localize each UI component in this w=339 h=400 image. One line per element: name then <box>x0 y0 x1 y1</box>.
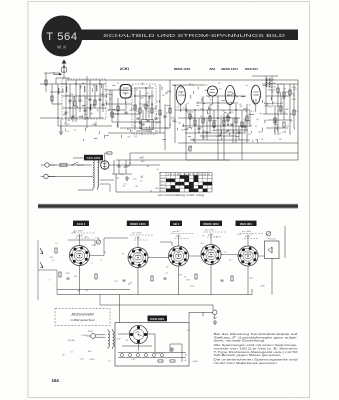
svg-text:1,9: 1,9 <box>240 249 243 251</box>
scan speckle <box>32 7 306 395</box>
svg-text:5000: 5000 <box>258 131 262 133</box>
power ground <box>125 176 129 180</box>
wire output section <box>252 76 298 135</box>
svg-text:5000: 5000 <box>178 105 182 107</box>
mains plug upper <box>41 163 55 167</box>
smoothing capacitors <box>112 160 132 174</box>
svg-text:0,5: 0,5 <box>123 185 125 187</box>
svg-text:25: 25 <box>160 113 162 115</box>
svg-text:50: 50 <box>191 111 193 113</box>
svg-text:25: 25 <box>255 126 257 128</box>
svg-text:0,1: 0,1 <box>81 335 84 337</box>
mains transformer (bottom) <box>108 329 114 349</box>
svg-text:RENS 1264: RENS 1264 <box>221 67 238 71</box>
socket AB1 <box>169 246 189 266</box>
wire right edge drop <box>297 80 299 160</box>
svg-text:300: 300 <box>141 97 144 99</box>
heater wires <box>100 180 114 192</box>
svg-text:0,5: 0,5 <box>146 111 148 113</box>
svg-text:2x350: 2x350 <box>154 353 160 355</box>
detector resistors <box>189 114 248 127</box>
detector caps <box>198 124 247 136</box>
svg-text:25: 25 <box>278 111 280 113</box>
svg-text:10: 10 <box>166 113 168 115</box>
svg-text:0,2: 0,2 <box>259 96 261 98</box>
component value specks <box>60 83 298 193</box>
svg-text:dreht, neutrale Einstellung).: dreht, neutrale Einstellung). <box>214 339 266 343</box>
svg-text:0,1: 0,1 <box>108 361 111 363</box>
svg-text:0,5: 0,5 <box>67 124 69 126</box>
svg-text:100: 100 <box>279 139 282 141</box>
svg-text:Lw 1: Lw 1 <box>161 177 165 179</box>
svg-text:100: 100 <box>113 114 116 116</box>
svg-text:10: 10 <box>142 158 144 160</box>
chassis outline <box>115 323 189 367</box>
socket top stubs <box>80 233 249 248</box>
socket RENS1264 a <box>128 248 148 268</box>
svg-text:2x350: 2x350 <box>192 361 198 363</box>
svg-text:25: 25 <box>200 109 202 111</box>
svg-text:Volt-Bereich gegen Masse gemes: Volt-Bereich gegen Masse gemessen. <box>214 353 282 357</box>
lamp between sockets <box>95 237 101 245</box>
svg-text:10: 10 <box>249 105 251 107</box>
mixer junction dots <box>117 87 160 122</box>
svg-text:300: 300 <box>139 104 142 106</box>
bottom voltage specks <box>63 330 198 363</box>
svg-text:0,2: 0,2 <box>90 113 92 115</box>
svg-text:0,1: 0,1 <box>67 131 69 133</box>
label socket RENS1264 a <box>127 221 149 226</box>
svg-text:25: 25 <box>216 136 218 138</box>
svg-text:RENS 1264: RENS 1264 <box>174 67 191 71</box>
svg-text:25: 25 <box>208 109 210 111</box>
svg-text:5000: 5000 <box>171 117 175 119</box>
rgn1064 label box (schematic) <box>84 155 103 161</box>
svg-text:10: 10 <box>150 191 152 193</box>
speaker box <box>265 239 280 259</box>
wire socket bus <box>57 226 285 323</box>
title banner SCHALTBILD UND STROM-SPANNUNGS BILD <box>79 30 298 41</box>
svg-text:Lw 4: Lw 4 <box>161 187 165 189</box>
tube RENS1264 second envelope <box>225 85 235 112</box>
svg-text:25: 25 <box>231 112 233 114</box>
label socket RES964 <box>236 221 257 226</box>
wire left vertical feeds <box>66 76 87 128</box>
svg-text:0,2: 0,2 <box>60 118 62 120</box>
svg-text:RENS 1264: RENS 1264 <box>203 222 219 226</box>
svg-text:Allstrommodell: Allstrommodell <box>70 313 93 317</box>
svg-text:0,1: 0,1 <box>86 98 88 100</box>
svg-text:5000: 5000 <box>286 92 290 94</box>
svg-text:0,2: 0,2 <box>245 111 247 113</box>
svg-text:0,1: 0,1 <box>134 126 136 128</box>
svg-text:0,1: 0,1 <box>183 108 185 110</box>
svg-text:0: 0 <box>49 279 50 281</box>
svg-text:0,5: 0,5 <box>219 89 221 91</box>
svg-text:0,1: 0,1 <box>150 132 152 134</box>
label tube AB1 (schematic) <box>209 67 215 71</box>
svg-text:100: 100 <box>116 177 119 179</box>
mains plug (bottom) <box>87 331 106 338</box>
svg-text:10: 10 <box>123 167 125 169</box>
svg-text:0,5: 0,5 <box>224 132 226 134</box>
switch F+1 top left <box>53 73 61 76</box>
svg-text:25: 25 <box>206 85 208 87</box>
svg-text:100: 100 <box>271 91 274 93</box>
tuner capacitors <box>45 80 105 117</box>
svg-text:10: 10 <box>203 137 205 139</box>
svg-text:164: 164 <box>52 378 60 383</box>
svg-text:4,15V: 4,15V <box>245 235 251 238</box>
volume control <box>188 146 192 151</box>
section divider rule <box>38 204 298 209</box>
svg-text:10: 10 <box>280 84 282 86</box>
tube ACH1 envelope <box>120 85 131 105</box>
svg-text:per Umschaltung möbl. nötig: per Umschaltung möbl. nötig <box>157 194 205 197</box>
svg-text:0,5: 0,5 <box>256 119 258 121</box>
svg-text:0,25: 0,25 <box>222 118 225 120</box>
wire power to bus <box>48 126 160 192</box>
svg-text:1,9: 1,9 <box>165 273 168 275</box>
if filter box <box>142 120 154 130</box>
table caption <box>157 194 205 197</box>
svg-text:0,5: 0,5 <box>245 85 247 87</box>
svg-text:10: 10 <box>279 133 281 135</box>
svg-text:Lw 2: Lw 2 <box>161 181 165 183</box>
svg-text:10: 10 <box>125 102 127 104</box>
svg-text:AB 1: AB 1 <box>173 222 180 226</box>
svg-text:25: 25 <box>197 102 199 104</box>
svg-text:Wdg 100: Wdg 100 <box>268 83 276 85</box>
label tube RENS1264 second (schematic) <box>221 67 238 71</box>
svg-text:1,9: 1,9 <box>51 260 54 262</box>
socket RES964 <box>238 246 258 266</box>
label socket ACH1 <box>73 221 89 226</box>
svg-text:10: 10 <box>127 97 129 99</box>
svg-text:0,1: 0,1 <box>107 109 109 111</box>
svg-text:0,25: 0,25 <box>283 112 286 114</box>
svg-text:4000: 4000 <box>292 99 296 101</box>
svg-text:4,15V: 4,15V <box>135 237 141 240</box>
svg-text:100: 100 <box>276 127 279 129</box>
svg-text:im Bild gezeichnet: im Bild gezeichnet <box>70 318 95 322</box>
output transformer <box>266 78 270 87</box>
svg-text:Lw 5: Lw 5 <box>161 191 165 193</box>
svg-text:0,2: 0,2 <box>200 126 202 128</box>
svg-text:zusätzl. ausgeführt: zusätzl. ausgeführt <box>264 105 281 108</box>
svg-text:5000: 5000 <box>155 188 159 190</box>
svg-text:4,15V: 4,15V <box>176 235 182 238</box>
svg-text:1,9: 1,9 <box>224 252 227 254</box>
svg-text:0,1: 0,1 <box>296 111 298 113</box>
svg-text:220: 220 <box>186 330 190 332</box>
svg-text:0,1: 0,1 <box>117 83 119 85</box>
svg-text:220V: 220V <box>88 331 94 333</box>
svg-text:0,2: 0,2 <box>200 116 202 118</box>
svg-text:0,1: 0,1 <box>80 85 82 87</box>
svg-text:100: 100 <box>112 117 115 119</box>
svg-text:0,25: 0,25 <box>146 131 149 133</box>
svg-text:0,5: 0,5 <box>147 102 149 104</box>
svg-text:0,25: 0,25 <box>265 120 268 122</box>
svg-text:Freischw.: Freischw. <box>268 239 277 241</box>
svg-text:0,25: 0,25 <box>133 179 136 181</box>
svg-text:abs. 4,15V: abs. 4,15V <box>132 232 142 235</box>
svg-text:ges. 250V: ges. 250V <box>242 231 252 233</box>
svg-text:25: 25 <box>140 181 142 183</box>
svg-text:0,1: 0,1 <box>155 131 157 133</box>
bottom right ground <box>213 320 217 324</box>
svg-text:0,2: 0,2 <box>209 92 211 94</box>
svg-text:0,25: 0,25 <box>165 128 168 130</box>
svg-text:0,5: 0,5 <box>186 103 188 105</box>
svg-text:Wdg 150: Wdg 150 <box>268 86 276 88</box>
svg-text:SCHALTBILD UND STROM-SPANNUNGS: SCHALTBILD UND STROM-SPANNUNGS BILD <box>103 33 286 38</box>
page number <box>52 378 60 383</box>
power transformer <box>73 158 99 190</box>
wire if-detector section <box>172 85 298 160</box>
svg-text:0,5: 0,5 <box>82 105 84 107</box>
lead ticks <box>63 83 295 143</box>
wire tuner grid left <box>40 73 112 130</box>
svg-text:10: 10 <box>134 122 136 124</box>
right notes text <box>264 102 281 108</box>
socket RGN1064 <box>129 325 147 343</box>
svg-text:2x350: 2x350 <box>69 340 75 342</box>
svg-text:4,15V: 4,15V <box>208 234 214 237</box>
svg-text:Wdg 50: Wdg 50 <box>268 80 275 82</box>
svg-text:100: 100 <box>157 118 160 120</box>
detector junction dots <box>185 109 242 126</box>
svg-text:0,1: 0,1 <box>257 94 259 96</box>
svg-text:25: 25 <box>177 107 179 109</box>
svg-text:0: 0 <box>251 234 252 236</box>
right value labels <box>268 80 276 92</box>
label tube ACH1 (schematic) <box>120 67 129 71</box>
svg-text:0: 0 <box>91 263 92 265</box>
fuse <box>60 163 67 167</box>
svg-text:300: 300 <box>155 106 158 108</box>
label socket RGN1064 <box>148 316 168 322</box>
svg-text:10: 10 <box>141 134 143 136</box>
svg-text:0,1: 0,1 <box>64 123 66 125</box>
socket caps <box>67 278 224 281</box>
svg-text:RES 964: RES 964 <box>245 67 258 71</box>
svg-text:ges. 4V: ges. 4V <box>173 230 180 233</box>
label tube RENS1264 first (schematic) <box>174 67 191 71</box>
svg-text:300: 300 <box>248 114 251 116</box>
svg-text:300: 300 <box>127 136 130 138</box>
socket resistors <box>55 248 233 281</box>
band filter dashed box <box>62 79 106 119</box>
output resistors <box>274 88 295 127</box>
svg-text:50: 50 <box>74 129 76 131</box>
svg-text:300: 300 <box>239 106 242 108</box>
svg-text:RES 964: RES 964 <box>240 222 252 226</box>
svg-text:RENS 1264: RENS 1264 <box>130 222 146 226</box>
svg-text:0,2: 0,2 <box>157 169 159 171</box>
power switch <box>71 162 84 166</box>
svg-text:0,1: 0,1 <box>71 351 74 353</box>
svg-text:220V: 220V <box>260 286 266 288</box>
headphone jack <box>213 310 217 319</box>
svg-text:10: 10 <box>136 89 138 91</box>
label socket AB1 <box>170 221 182 226</box>
svg-text:0,5: 0,5 <box>269 106 271 108</box>
ground (antenna circuit) <box>59 130 63 134</box>
svg-text:5000: 5000 <box>141 161 145 163</box>
wire hv bus to power <box>116 153 298 160</box>
right edge labels <box>292 87 296 101</box>
tube RENS1264 first envelope <box>176 86 185 112</box>
label socket RENS1264 b <box>200 221 222 226</box>
svg-text:0,25: 0,25 <box>134 136 137 138</box>
mains plug lower <box>41 174 55 178</box>
antenna <box>56 60 70 84</box>
svg-text:100: 100 <box>192 118 195 120</box>
chassis resistors <box>158 360 175 362</box>
svg-text:5000: 5000 <box>61 84 65 86</box>
svg-text:W.K: W.K <box>57 45 67 50</box>
svg-text:0,25: 0,25 <box>146 93 149 95</box>
svg-text:AB1: AB1 <box>209 67 215 71</box>
wire mixer section <box>106 80 170 150</box>
choke <box>105 152 112 169</box>
socket voltage specks <box>49 231 266 293</box>
svg-text:220V: 220V <box>65 273 71 275</box>
svg-text:25: 25 <box>83 95 85 97</box>
svg-text:0,1: 0,1 <box>251 111 253 113</box>
svg-text:0,2: 0,2 <box>109 98 111 100</box>
mixer resistors <box>111 104 171 117</box>
label tube RES964 (schematic) <box>245 67 258 71</box>
svg-text:100: 100 <box>100 94 103 96</box>
svg-text:Lw 3: Lw 3 <box>161 184 165 186</box>
svg-text:0,1: 0,1 <box>287 125 289 127</box>
svg-text:0,25: 0,25 <box>120 174 123 176</box>
title medallion T 564 W.K <box>42 16 83 57</box>
svg-text:10: 10 <box>289 114 291 116</box>
mixer caps <box>125 112 167 125</box>
svg-text:T 564: T 564 <box>46 31 77 43</box>
wire socket cross links <box>38 238 265 305</box>
socket ACH1 <box>70 246 90 266</box>
svg-text:0,2: 0,2 <box>140 127 142 129</box>
socket RENS1264 b <box>201 245 221 265</box>
oscillator dashed box <box>132 84 156 134</box>
svg-text:mit der roten Skalenlampe geme: mit der roten Skalenlampe gemessen. <box>214 361 278 365</box>
bottom ground <box>170 347 174 351</box>
svg-text:100: 100 <box>106 93 109 95</box>
chassis internal wires <box>118 334 182 362</box>
tube RGN1064 (schematic) <box>101 161 109 169</box>
svg-text:2x350: 2x350 <box>89 359 95 361</box>
pickup jack <box>266 231 271 236</box>
svg-text:300: 300 <box>127 129 130 131</box>
tube RES964 envelope <box>251 85 260 112</box>
svg-text:220: 220 <box>79 358 83 360</box>
svg-text:10: 10 <box>165 92 167 94</box>
svg-text:300: 300 <box>294 89 297 91</box>
footnote text block <box>214 332 299 365</box>
svg-text:25: 25 <box>89 107 91 109</box>
measurement leaders <box>72 230 265 241</box>
switch position table <box>160 173 212 193</box>
svg-text:0,5: 0,5 <box>247 123 249 125</box>
svg-text:100: 100 <box>280 103 283 105</box>
svg-text:ACH1: ACH1 <box>120 67 129 71</box>
tube AB1 envelope <box>208 86 218 104</box>
terminal row <box>118 353 186 358</box>
svg-text:25: 25 <box>290 120 292 122</box>
svg-text:0,5: 0,5 <box>218 83 220 85</box>
svg-text:RGN 1064: RGN 1064 <box>150 317 164 321</box>
svg-text:300: 300 <box>70 94 73 96</box>
svg-text:10: 10 <box>156 101 158 103</box>
svg-text:0,2: 0,2 <box>141 176 143 178</box>
svg-text:1,9: 1,9 <box>55 243 58 245</box>
svg-text:0: 0 <box>101 260 102 262</box>
tuner coils <box>58 85 97 110</box>
wire top B+ bus <box>66 79 298 81</box>
svg-text:10: 10 <box>223 137 225 139</box>
svg-text:0,2: 0,2 <box>174 119 176 121</box>
svg-text:10: 10 <box>181 130 183 132</box>
svg-text:50: 50 <box>189 83 191 85</box>
svg-text:25: 25 <box>136 111 138 113</box>
svg-text:ges. 170V: ges. 170V <box>205 230 215 232</box>
wire chassis to jack <box>189 312 213 322</box>
left measure arrows <box>40 248 43 268</box>
tuner junction dots <box>57 83 100 118</box>
note box allstrommodell <box>55 309 110 326</box>
svg-text:1,9: 1,9 <box>86 290 89 292</box>
svg-text:1 2 3 K L M N O P Q R S: 1 2 3 K L M N O P Q R S <box>167 174 211 176</box>
svg-text:ACH 1: ACH 1 <box>77 222 86 226</box>
